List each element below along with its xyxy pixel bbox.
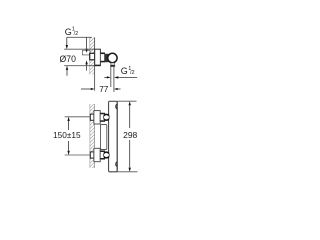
svg-text:/2: /2 <box>130 70 135 76</box>
svg-text:G: G <box>121 66 128 76</box>
svg-text:77: 77 <box>99 84 109 94</box>
svg-text:298: 298 <box>123 130 137 140</box>
svg-text:150±15: 150±15 <box>53 130 81 140</box>
svg-text:Ø70: Ø70 <box>60 54 76 64</box>
svg-text:/2: /2 <box>74 31 79 37</box>
svg-text:G: G <box>65 27 72 37</box>
